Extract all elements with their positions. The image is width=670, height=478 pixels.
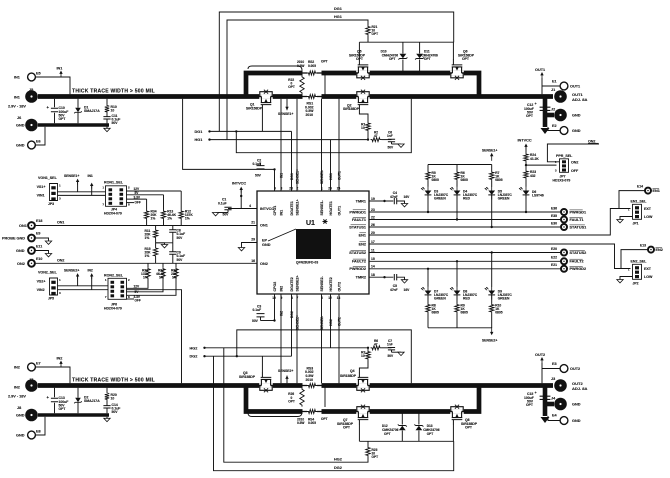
- svg-text:OUT2: OUT2: [535, 353, 545, 357]
- svg-text:2.9V - 18V: 2.9V - 18V: [8, 105, 26, 109]
- wire kelvin sense loop CH1: [248, 66, 302, 71]
- wire gate rail CH1: [359, 41, 453, 43]
- capacitor C1 0.1uF: [224, 207, 231, 209]
- svg-text:GND: GND: [572, 114, 581, 118]
- svg-text:10: 10: [361, 354, 365, 358]
- svg-text:DGATE2: DGATE2: [290, 277, 294, 291]
- svg-text:SENSE1+: SENSE1+: [482, 149, 497, 153]
- wire GND bus CH2 (thick): [38, 413, 109, 416]
- wire OUT1 pin to bus: [338, 99, 340, 191]
- wire STATUS2 net: [369, 252, 561, 254]
- svg-text:1: 1: [59, 184, 61, 188]
- wire HG2 to HGATE2: [205, 347, 369, 349]
- wire OUT2 pin to bus: [338, 294, 340, 383]
- svg-text:TMR1: TMR1: [356, 199, 366, 203]
- svg-text:50V: 50V: [388, 354, 395, 358]
- svg-text:ON2: ON2: [17, 262, 25, 266]
- wire HG1 top loop: [227, 20, 368, 140]
- svg-text:0805: 0805: [461, 178, 469, 182]
- resistor R10: [106, 99, 108, 104]
- svg-text:GND: GND: [572, 403, 581, 407]
- svg-text:41.2K: 41.2K: [530, 157, 539, 161]
- svg-text:10: 10: [361, 126, 365, 130]
- wire bus2 tap right vertical: [237, 330, 411, 383]
- svg-text:ADJ. 8A: ADJ. 8A: [572, 386, 587, 391]
- wire DG1 to DGATE1: [210, 130, 292, 132]
- wire GND bus CH1 (thick): [38, 123, 109, 126]
- wire SENSE2- pin to bus: [321, 294, 323, 383]
- diode D2 SMAJ17A: [77, 388, 79, 398]
- svg-text:VS2+: VS2+: [37, 280, 46, 284]
- LED D9 LNJ357C GREEN: [491, 253, 493, 287]
- ground after C6: [392, 143, 402, 145]
- wire HG2 bottom loop: [224, 348, 368, 462]
- svg-text:STATUS2: STATUS2: [570, 251, 587, 255]
- wire RON2 5V row: [127, 280, 164, 292]
- svg-text:50V: 50V: [177, 236, 184, 240]
- svg-text:SiR158DP: SiR158DP: [343, 107, 360, 111]
- svg-text:HD2X4-079: HD2X4-079: [104, 211, 122, 215]
- wire DGATE2 pin to DG2: [291, 294, 293, 356]
- svg-text:OPT: OPT: [59, 407, 67, 411]
- ground after C1: [216, 212, 228, 214]
- svg-text:1nF: 1nF: [387, 342, 393, 346]
- svg-text:FAULT2: FAULT2: [352, 260, 366, 264]
- wire DG1 top loop: [219, 12, 453, 131]
- wire RON1 5V row: [127, 194, 164, 196]
- svg-text:DGATE1: DGATE1: [290, 201, 294, 215]
- LED D3 LNJ357C GREEN: [427, 181, 429, 187]
- svg-text:3: 3: [59, 291, 61, 295]
- svg-text:E14: E14: [637, 184, 643, 188]
- wire STATUS1 net: [369, 226, 561, 228]
- transistor Q6 SiR158DP OPT: [449, 60, 464, 80]
- svg-text:1: 1: [105, 278, 107, 282]
- svg-text:OPT: OPT: [526, 403, 534, 407]
- svg-text:HG2: HG2: [334, 458, 342, 462]
- ground below C14: [106, 417, 108, 419]
- transistor Q7 SiR158DP OPT: [355, 405, 370, 425]
- wire EN2 net: [369, 244, 631, 269]
- transistor Q2 SiR158DP: [355, 90, 370, 110]
- transistor Q3 SiR158DP: [258, 372, 273, 392]
- svg-text:RED: RED: [463, 197, 471, 201]
- wire LED rail CH2: [428, 327, 492, 329]
- wire RON1 OFF row: [127, 202, 135, 204]
- svg-text:8: 8: [128, 203, 130, 207]
- svg-text:JP5: JP5: [48, 297, 54, 301]
- svg-text:SMAJ17A: SMAJ17A: [84, 109, 100, 113]
- wire LED rail CH1: [428, 164, 492, 166]
- wire RON2 OFF row: [127, 298, 135, 300]
- svg-text:EXT: EXT: [644, 267, 652, 271]
- resistor R8 1K: [427, 295, 429, 303]
- wire D5 to status line: [491, 195, 493, 227]
- svg-text:10: 10: [111, 108, 115, 112]
- svg-text:GND: GND: [16, 414, 25, 418]
- svg-text:GND: GND: [572, 129, 581, 133]
- svg-text:2.9V - 18V: 2.9V - 18V: [8, 395, 26, 399]
- svg-text:15: 15: [371, 257, 375, 261]
- capacitor C13 100uF: [54, 388, 56, 398]
- svg-text:1%: 1%: [145, 254, 150, 258]
- svg-text:IN2: IN2: [279, 311, 283, 316]
- svg-text:1: 1: [59, 278, 61, 282]
- diode D13 CMHZ4706 OPT: [418, 414, 420, 425]
- svg-text:EN1_SEL: EN1_SEL: [631, 200, 648, 204]
- svg-text:DG1: DG1: [290, 173, 294, 180]
- node SENSE2+ arrow LED rail: [491, 327, 493, 333]
- ground EP pin: [242, 243, 258, 248]
- wire E5 to bus: [35, 77, 70, 94]
- svg-text:7: 7: [105, 295, 107, 299]
- svg-text:VIN1: VIN1: [37, 193, 45, 197]
- svg-text:21: 21: [251, 220, 255, 224]
- svg-text:E22: E22: [551, 256, 557, 260]
- wire OUT1 to E1: [541, 78, 543, 94]
- svg-text:E2: E2: [552, 124, 557, 128]
- svg-text:0.5W: 0.5W: [297, 421, 304, 425]
- svg-text:JP1: JP1: [633, 221, 639, 225]
- svg-text:OUT1: OUT1: [337, 171, 341, 180]
- svg-text:OPT: OPT: [343, 426, 351, 430]
- svg-text:IN1: IN1: [280, 210, 284, 216]
- svg-text:16V: 16V: [404, 195, 411, 199]
- svg-text:IN1: IN1: [14, 76, 20, 80]
- resistor R21 10 OPT: [366, 25, 370, 36]
- svg-text:GND: GND: [16, 144, 25, 148]
- svg-text:3: 3: [59, 197, 61, 201]
- svg-text:0.1uF: 0.1uF: [253, 162, 262, 166]
- ground after C7: [392, 351, 402, 353]
- resistor R25 10 OPT: [366, 446, 370, 457]
- svg-text:GND: GND: [16, 434, 25, 438]
- resistor R3 gate of Q4: [359, 361, 368, 373]
- svg-text:E6: E6: [36, 140, 41, 144]
- svg-text:IN2: IN2: [280, 286, 284, 292]
- wire PWRGD1 net: [369, 211, 561, 213]
- svg-text:HG1: HG1: [195, 138, 203, 142]
- wire JP7 pin1 to ON2 label: [547, 144, 599, 162]
- svg-text:EXT: EXT: [644, 207, 652, 211]
- wire PWRGD2 net: [369, 268, 561, 270]
- svg-text:J6: J6: [17, 116, 21, 120]
- svg-text:OPT: OPT: [384, 432, 391, 436]
- svg-text:23: 23: [371, 208, 375, 212]
- svg-text:1%: 1%: [143, 276, 148, 280]
- node OUT1 arrow: [541, 74, 543, 78]
- svg-text:OPT: OPT: [356, 57, 364, 61]
- svg-text:+: +: [47, 105, 50, 110]
- svg-text:+: +: [535, 391, 538, 395]
- resistor R7 1K: [491, 165, 493, 171]
- svg-text:SENSE1-: SENSE1-: [320, 170, 324, 184]
- wire HGATE2 pin to HG2: [330, 294, 332, 348]
- svg-text:E3: E3: [552, 362, 557, 366]
- svg-text:10: 10: [111, 396, 115, 400]
- svg-text:4: 4: [249, 204, 251, 208]
- svg-text:OPT: OPT: [321, 59, 328, 63]
- resistor R15 20K: [155, 239, 157, 247]
- svg-text:SENSE2+: SENSE2+: [482, 339, 497, 343]
- svg-text:DG2: DG2: [190, 355, 198, 359]
- svg-text:QFN28UFD-03: QFN28UFD-03: [296, 261, 318, 265]
- svg-text:2: 2: [128, 278, 130, 282]
- svg-text:STATUS2: STATUS2: [349, 251, 366, 255]
- svg-text:19: 19: [371, 197, 375, 201]
- svg-text:E20: E20: [551, 247, 557, 251]
- wire E6 to GND bus: [35, 127, 45, 145]
- U1 exposed pad: [296, 229, 331, 259]
- resistor R1 gate of Q2: [359, 110, 368, 122]
- ground mid divider: [156, 243, 165, 245]
- svg-text:DG2: DG2: [334, 466, 342, 470]
- wire DGATE1 pin to DG1: [291, 131, 293, 191]
- svg-text:0805: 0805: [432, 178, 440, 182]
- svg-text:HGATE1: HGATE1: [329, 201, 333, 215]
- wire E14 to JP1: [619, 191, 645, 209]
- svg-text:DG1: DG1: [195, 130, 203, 134]
- sense resistor RS2 OPT: [303, 70, 322, 76]
- svg-text:2: 2: [128, 186, 130, 190]
- wire D4 to status line: [456, 195, 458, 220]
- svg-text:20: 20: [371, 231, 375, 235]
- svg-text:IN2: IN2: [57, 357, 63, 361]
- wire IN2 power bus (thick): [38, 383, 553, 388]
- LED D7 LNJ357C GREEN: [427, 269, 429, 287]
- op-amp U1 LTC dual hot-swap controller: [257, 191, 369, 294]
- svg-text:JP3: JP3: [48, 202, 54, 206]
- wire Q3 gate to DG2: [261, 356, 263, 372]
- resistor R5 1K: [427, 165, 429, 171]
- svg-text:16: 16: [251, 259, 255, 263]
- svg-text:GND: GND: [16, 249, 25, 253]
- svg-text:SENSE2+: SENSE2+: [64, 269, 79, 273]
- wire IN1 pin to bus: [280, 99, 282, 191]
- svg-text:IN2: IN2: [88, 269, 93, 273]
- sense resistor RS4 OPT: [303, 409, 322, 415]
- transistor Q8 SiR158DP OPT: [449, 405, 464, 425]
- svg-text:OPT: OPT: [59, 117, 67, 121]
- capacitor C8 0.1uF: [172, 226, 174, 230]
- svg-text:PPR_SEL: PPR_SEL: [556, 154, 573, 158]
- svg-text:OPT: OPT: [424, 57, 431, 61]
- svg-text:CPO1: CPO1: [273, 206, 277, 216]
- svg-text:J4: J4: [551, 397, 556, 401]
- diode D11 CMHZ4706 OPT: [419, 42, 421, 53]
- resistor R2 47: [371, 138, 382, 142]
- svg-text:50V: 50V: [112, 121, 119, 125]
- svg-text:1: 1: [102, 186, 104, 190]
- svg-text:PROBE GND: PROBE GND: [2, 237, 25, 241]
- svg-text:IN2: IN2: [14, 386, 20, 390]
- svg-text:PWRGD1: PWRGD1: [570, 210, 587, 214]
- svg-text:1: 1: [628, 207, 630, 211]
- svg-text:SiR158DP: SiR158DP: [340, 374, 357, 378]
- svg-text:VS1+: VS1+: [37, 185, 46, 189]
- svg-text:432: 432: [530, 174, 536, 178]
- capacitor C6 1nF: [382, 139, 392, 141]
- diode D12 CMHZ4706 OPT: [401, 414, 403, 425]
- svg-text:SENSE2-: SENSE2-: [320, 275, 324, 291]
- wire Q6 gate to rail: [452, 42, 454, 60]
- svg-text:THICK TRACE WIDTH > 500 MIL: THICK TRACE WIDTH > 500 MIL: [72, 88, 155, 94]
- svg-text:INTVCC: INTVCC: [232, 181, 246, 185]
- wire DG2 to DGATE2: [205, 355, 292, 357]
- svg-text:SENSE1+: SENSE1+: [278, 112, 293, 116]
- svg-text:E8: E8: [36, 430, 41, 434]
- svg-text:LS9T46: LS9T46: [532, 193, 544, 197]
- svg-text:12V: 12V: [134, 284, 141, 288]
- svg-text:OPT: OPT: [389, 57, 396, 61]
- svg-text:50V: 50V: [177, 258, 184, 262]
- wire SENSE2+ pin to bus: [296, 294, 298, 383]
- svg-text:0.005: 0.005: [308, 64, 316, 68]
- svg-text:DG1: DG1: [334, 7, 342, 11]
- sense resistor RS3 0.002: [303, 383, 322, 389]
- svg-text:OPT: OPT: [427, 432, 434, 436]
- svg-text:1%: 1%: [145, 236, 150, 240]
- svg-text:47nF: 47nF: [390, 195, 398, 199]
- svg-text:STATUS1: STATUS1: [349, 225, 366, 229]
- svg-text:1nF: 1nF: [387, 134, 393, 138]
- capacitor C12 100uF: [540, 107, 551, 110]
- svg-text:0.005: 0.005: [308, 421, 316, 425]
- svg-text:GREEN: GREEN: [498, 197, 510, 201]
- svg-text:GND: GND: [572, 419, 581, 423]
- wire RON2 3.3V row: [127, 280, 177, 296]
- svg-text:18: 18: [371, 273, 375, 277]
- svg-text:OUT2: OUT2: [338, 282, 342, 292]
- node SENSE1+ arrow: [286, 108, 288, 110]
- svg-text:J8: J8: [17, 406, 21, 410]
- svg-text:0805: 0805: [495, 311, 503, 315]
- svg-text:LOW: LOW: [644, 215, 653, 219]
- wire Q7 gate to rail: [358, 425, 360, 441]
- svg-text:0.1uF: 0.1uF: [253, 308, 262, 312]
- svg-text:CPO2: CPO2: [273, 282, 277, 292]
- svg-text:ON1: ON1: [260, 223, 268, 227]
- svg-text:DG2: DG2: [290, 311, 294, 318]
- svg-text:IN1: IN1: [279, 173, 283, 178]
- resistor R37 46.4K: [161, 267, 165, 279]
- svg-text:0805: 0805: [495, 178, 503, 182]
- svg-text:VON2_SEL: VON2_SEL: [38, 270, 58, 274]
- wire Q8 gate to rail: [452, 425, 454, 441]
- svg-text:SENSE2+: SENSE2+: [296, 275, 300, 291]
- svg-text:1%: 1%: [167, 217, 172, 221]
- svg-text:RED: RED: [463, 297, 471, 301]
- wire RON2 12V row: [127, 280, 149, 289]
- wire ON1 net: [36, 225, 257, 227]
- diode D1 SMAJ17A: [77, 99, 79, 108]
- svg-text:FAULT1: FAULT1: [570, 218, 584, 222]
- svg-text:Q4: Q4: [350, 369, 355, 373]
- wire lower diode-OR bus CH2 (thick): [246, 386, 479, 412]
- capacitor C14 0.1uF: [103, 406, 110, 408]
- svg-text:EN1: EN1: [653, 189, 660, 193]
- svg-text:OFF: OFF: [571, 169, 579, 173]
- wire JP3 VIN1 row: [58, 194, 106, 196]
- wire INTVCC pin wire: [228, 208, 257, 210]
- svg-text:OUT2: OUT2: [337, 317, 341, 326]
- ground JP2 LOW: [620, 277, 633, 280]
- svg-text:50V: 50V: [255, 174, 262, 178]
- svg-text:HG2: HG2: [190, 346, 198, 350]
- svg-text:RON1_SEL: RON1_SEL: [104, 180, 124, 184]
- svg-text:SENSE2-: SENSE2-: [320, 316, 324, 330]
- svg-text:J2: J2: [551, 108, 555, 112]
- node OUT2 arrow: [541, 359, 543, 363]
- svg-text:IN1: IN1: [88, 174, 93, 178]
- resistor R10 1K: [491, 295, 493, 303]
- svg-text:GREEN: GREEN: [434, 197, 446, 201]
- svg-text:SENSE1+: SENSE1+: [64, 174, 79, 178]
- svg-text:IN2: IN2: [14, 366, 20, 370]
- svg-text:E36: E36: [551, 206, 557, 210]
- svg-text:E35: E35: [551, 214, 557, 218]
- wire SENSE1+ pin to bus: [296, 99, 298, 191]
- capacitor C10 100uF: [54, 99, 56, 108]
- wire FAULT2 net: [369, 260, 561, 262]
- svg-text:VIN2: VIN2: [37, 288, 45, 292]
- svg-text:TMR2: TMR2: [356, 276, 366, 280]
- wire Q1 gate to DG1: [261, 110, 263, 131]
- svg-text:HG2: HG2: [329, 319, 333, 326]
- svg-text:OUT1: OUT1: [570, 85, 580, 89]
- svg-text:3: 3: [555, 169, 557, 173]
- svg-text:1: 1: [628, 267, 630, 271]
- wire SENSE1- pin to bus: [321, 99, 323, 191]
- svg-text:IN1: IN1: [57, 67, 63, 71]
- svg-text:HG1: HG1: [334, 15, 342, 19]
- svg-text:SENSE1+: SENSE1+: [296, 199, 300, 215]
- svg-text:0805: 0805: [432, 311, 440, 315]
- resistor R12 137K: [180, 191, 182, 210]
- svg-text:HD2X4-079: HD2X4-079: [104, 307, 122, 311]
- svg-text:47: 47: [374, 134, 378, 138]
- svg-text:LOW: LOW: [644, 275, 653, 279]
- sense resistor RS1 0.002: [303, 94, 322, 100]
- diode D10 CMHZ4706 OPT: [402, 42, 404, 53]
- wire HG1 to HGATE1: [210, 139, 369, 141]
- svg-text:OUT1: OUT1: [535, 68, 545, 72]
- svg-text:ON2: ON2: [57, 258, 64, 262]
- svg-text:2010: 2010: [306, 113, 314, 117]
- wire E13 to JP2: [621, 250, 648, 269]
- capacitor C4 47nF: [369, 200, 393, 202]
- LED D5 LNJ357C GREEN: [491, 181, 493, 187]
- resistor R34 20K: [146, 199, 148, 209]
- svg-text:EN2: EN2: [656, 248, 663, 252]
- wire OUT2 to E3: [541, 363, 543, 383]
- svg-text:RON2_SEL: RON2_SEL: [104, 274, 124, 278]
- svg-text:ON2: ON2: [571, 160, 578, 164]
- svg-text:THICK TRACE WIDTH > 500 MIL: THICK TRACE WIDTH > 500 MIL: [72, 377, 155, 383]
- svg-text:50V: 50V: [112, 410, 119, 414]
- svg-text:PWRGD2: PWRGD2: [349, 267, 366, 271]
- svg-text:11: 11: [371, 248, 375, 252]
- wire RON1 12V row: [127, 190, 182, 192]
- svg-text:OPT: OPT: [288, 85, 295, 89]
- svg-text:50V: 50V: [388, 146, 395, 150]
- svg-text:E9: E9: [36, 231, 40, 235]
- svg-text:26: 26: [371, 223, 375, 227]
- wire D3 to status line: [427, 195, 429, 212]
- resistor R9 1K: [456, 295, 458, 303]
- svg-text:16V: 16V: [404, 288, 411, 292]
- svg-text:SiR158DP: SiR158DP: [239, 375, 256, 379]
